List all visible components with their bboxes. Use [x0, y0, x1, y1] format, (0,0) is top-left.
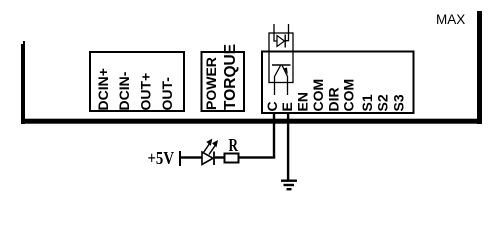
- svg-text:+5V: +5V: [148, 148, 175, 168]
- driver enclosure left border: [21, 41, 25, 124]
- resistor R: [225, 154, 239, 163]
- svg-text:C: C: [264, 101, 280, 111]
- svg-text:S1: S1: [359, 94, 375, 111]
- svg-text:DCIN+: DCIN+: [95, 68, 111, 110]
- +5V terminal tick: [179, 151, 181, 166]
- svg-text:DIR: DIR: [326, 87, 342, 111]
- svg-text:MAX: MAX: [436, 12, 465, 27]
- svg-text:R: R: [229, 135, 239, 155]
- svg-text:E: E: [279, 102, 295, 111]
- svg-text:POWER: POWER: [203, 57, 219, 110]
- phototransistor Q1 base bar: [272, 64, 291, 66]
- driver enclosure right border: [477, 11, 482, 124]
- optocoupler LED D1: [277, 35, 285, 48]
- wire C pin down: [273, 113, 275, 158]
- svg-text:S3: S3: [390, 94, 406, 111]
- svg-text:COM: COM: [310, 79, 326, 112]
- svg-text:TORQUE: TORQUE: [222, 44, 239, 110]
- potentiometer block (POWER/TORQUE): [202, 52, 245, 111]
- svg-text:COM: COM: [341, 79, 357, 112]
- wire horizontal from R to C: [239, 156, 275, 158]
- ground symbol: [281, 180, 297, 191]
- svg-text:OUT-: OUT-: [159, 77, 175, 111]
- svg-text:S2: S2: [375, 94, 391, 111]
- optocoupler cathode lead: [285, 24, 288, 41]
- svg-text:DCIN-: DCIN-: [116, 71, 132, 110]
- LED D2: [202, 139, 218, 165]
- svg-text:OUT+: OUT+: [138, 73, 154, 111]
- wire E pin down to ground: [287, 113, 289, 180]
- wire LED to R: [214, 156, 225, 158]
- phototransistor emitter lead with arrow: [282, 66, 288, 96]
- terminal block (DCIN/OUT): [90, 52, 184, 111]
- wire +5V to LED: [181, 156, 202, 158]
- driver enclosure bottom border: [21, 119, 482, 124]
- optocoupler anode lead: [274, 24, 277, 41]
- svg-text:EN: EN: [294, 92, 310, 111]
- optocoupler U1 body: [269, 33, 293, 83]
- control terminal block (C E EN COM DIR COM S1 S2 S3): [262, 52, 414, 114]
- phototransistor collector lead: [275, 66, 281, 96]
